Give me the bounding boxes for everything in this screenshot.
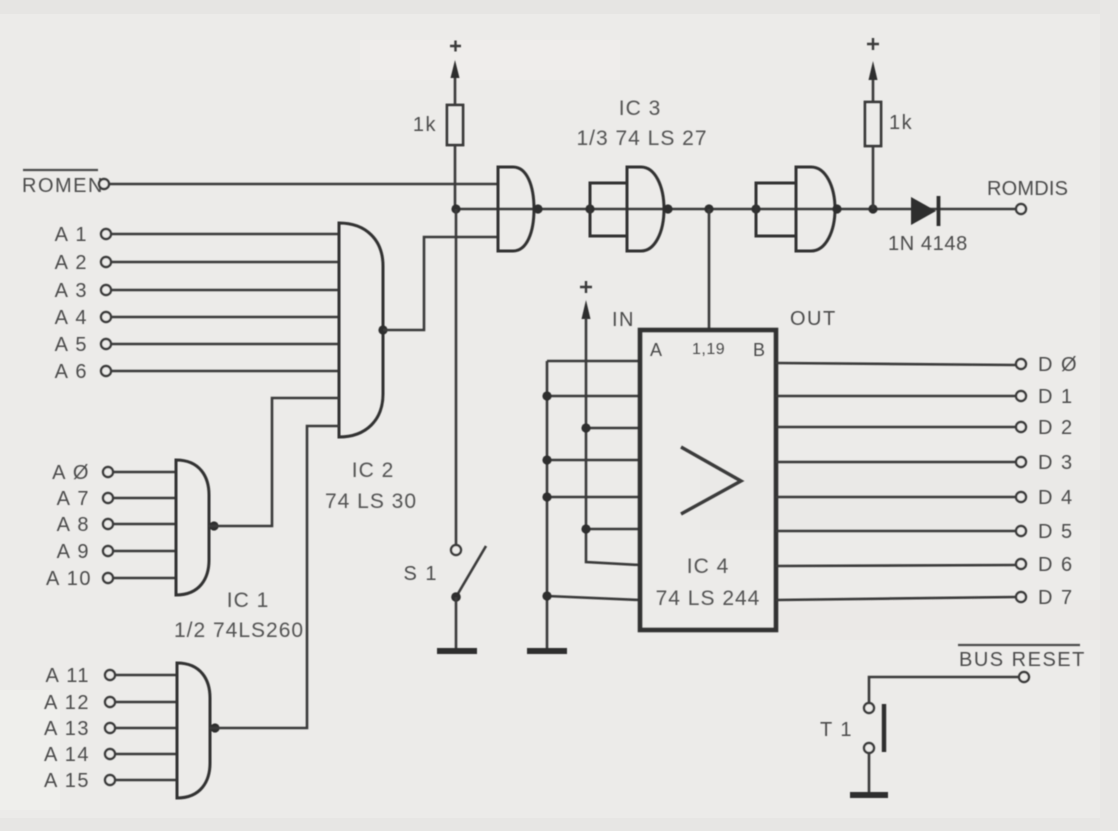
terminal D6	[1016, 554, 1074, 576]
main net wire y209	[456, 208, 1016, 211]
wire IC4 input 2	[547, 395, 640, 398]
wire A15	[116, 779, 177, 782]
wire R2 to main node	[872, 146, 875, 209]
gate IC1b 1/2 74LS260 body	[177, 663, 210, 798]
resistor R1 1k	[413, 105, 463, 145]
junction IN bus in8	[542, 591, 551, 600]
terminal ROMEN	[99, 179, 109, 189]
svg-text:A 15: A 15	[44, 770, 90, 792]
gate IC2 74LS30 body	[339, 223, 383, 437]
node A10	[46, 568, 113, 590]
wire A13	[116, 727, 177, 730]
wire output D6	[776, 565, 1016, 566]
svg-text:A 14: A 14	[44, 744, 90, 766]
wire output D5	[776, 530, 1016, 533]
svg-text:D 4: D 4	[1038, 487, 1074, 509]
wire IC4 input 8	[547, 596, 640, 600]
wire IN bus vertical	[546, 361, 549, 650]
junction IC1a output	[209, 521, 218, 530]
wire IC4 input 5	[547, 496, 640, 499]
junction main at R2	[868, 204, 877, 213]
wire output D0	[776, 363, 1016, 365]
wire A8	[114, 523, 176, 526]
svg-text:A 3: A 3	[55, 280, 88, 302]
svg-text:IC 4: IC 4	[687, 555, 730, 578]
svg-text:ROMEN: ROMEN	[22, 175, 104, 197]
wire IC4 enable pin	[708, 209, 711, 330]
svg-text:A 12: A 12	[44, 692, 90, 714]
pushbutton T1	[820, 703, 884, 753]
svg-text:1N 4148: 1N 4148	[888, 233, 968, 255]
node A12	[44, 692, 115, 714]
svg-text:A 1: A 1	[55, 224, 88, 246]
IC3 label	[576, 97, 707, 150]
wire A4	[112, 316, 339, 319]
svg-text:1k: 1k	[889, 112, 913, 134]
wire A9	[114, 550, 176, 553]
wire output D3	[776, 461, 1016, 464]
power +5V symbol left	[450, 41, 461, 106]
svg-text:1k: 1k	[413, 114, 437, 136]
svg-text:74 LS 244: 74 LS 244	[656, 587, 761, 610]
terminal ROMDIS	[1016, 204, 1026, 214]
junction G2 input	[585, 204, 594, 213]
IC4 buffer symbol	[681, 447, 741, 514]
wire T1 to ground	[868, 753, 871, 794]
svg-text:OUT: OUT	[790, 308, 837, 330]
diode D1 1N4148	[888, 196, 968, 255]
node A6	[55, 361, 111, 383]
svg-text:1/2 74LS260: 1/2 74LS260	[174, 619, 304, 642]
svg-text:A 2: A 2	[55, 252, 88, 274]
terminal D0	[1016, 354, 1078, 376]
wire A10	[114, 577, 176, 580]
svg-text:74 LS 30: 74 LS 30	[325, 490, 417, 513]
terminal D1	[1016, 386, 1074, 408]
svg-text:IC 2: IC 2	[352, 459, 395, 482]
junction G3 output	[832, 204, 841, 213]
node A11	[45, 665, 115, 687]
switch S1	[403, 545, 486, 602]
junction G2 output	[663, 204, 672, 213]
IC4 pin labels A 1,19 B	[650, 340, 766, 360]
wire A1	[112, 233, 339, 236]
ground under T1	[850, 792, 888, 798]
wire IC4 input 1	[547, 360, 640, 363]
IC4 label	[656, 555, 761, 610]
node A4	[55, 307, 111, 329]
wire A7	[114, 497, 176, 500]
node A15	[44, 770, 115, 792]
svg-text:A 13: A 13	[44, 718, 90, 740]
node A8	[57, 514, 113, 536]
svg-text:D 6: D 6	[1038, 554, 1074, 576]
svg-text:A 8: A 8	[57, 514, 90, 536]
svg-text:D Ø: D Ø	[1038, 354, 1078, 376]
svg-text:D 5: D 5	[1038, 521, 1074, 543]
junction IC4 enable pin	[704, 204, 713, 213]
terminal D7	[1016, 587, 1074, 609]
junction main at R1	[451, 204, 460, 213]
switch S1 wire from main node	[455, 209, 458, 545]
terminal D3	[1016, 452, 1074, 474]
ground under IN bus	[527, 648, 567, 654]
terminal D5	[1016, 521, 1074, 543]
wire output D4	[776, 496, 1016, 499]
svg-text:A 5: A 5	[55, 334, 88, 356]
power +5V symbol middle	[580, 281, 592, 319]
wire ROMEN to gate G1	[110, 183, 498, 186]
power +5V symbol right	[867, 38, 879, 102]
ground under S1	[437, 648, 477, 654]
junction IC2 output	[378, 325, 387, 334]
node A5	[55, 334, 111, 356]
resistor R2 1k	[865, 102, 913, 146]
gate G2 IC3 input bracket	[590, 183, 627, 236]
svg-text:BUS RESET: BUS RESET	[959, 649, 1086, 671]
svg-text:ROMDIS: ROMDIS	[987, 178, 1068, 200]
wire IC4 input 4	[547, 459, 640, 462]
junction IN bus in5	[542, 492, 551, 501]
svg-text:D 1: D 1	[1038, 386, 1074, 408]
wire +5V pull-up vertical	[586, 318, 640, 565]
gate G3 IC3 input bracket	[756, 183, 796, 236]
svg-text:D 2: D 2	[1038, 417, 1074, 439]
svg-text:A: A	[650, 340, 663, 360]
gate G3 IC3 body	[796, 167, 835, 251]
IC2 label	[325, 459, 417, 513]
gate G2 IC3 body	[627, 167, 664, 251]
node A2	[55, 252, 111, 274]
wire A3	[112, 289, 339, 292]
svg-text:T 1: T 1	[820, 719, 853, 741]
node A13	[44, 718, 115, 740]
svg-text:B: B	[753, 340, 766, 360]
terminal D2	[1016, 417, 1074, 439]
node A3	[55, 280, 111, 302]
svg-text:D 3: D 3	[1038, 452, 1074, 474]
wire A0	[114, 471, 176, 474]
gate IC1a 1/2 74LS260 body	[176, 460, 209, 595]
node A14	[44, 744, 115, 766]
svg-text:1/3 74 LS 27: 1/3 74 LS 27	[576, 127, 707, 150]
svg-text:A 10: A 10	[46, 568, 92, 590]
junction pull-up in3	[581, 423, 590, 432]
junction G1 output	[533, 204, 542, 213]
junction IN bus in2	[542, 391, 551, 400]
wire output D7	[776, 597, 1016, 600]
wire IC1a output to IC2 input	[209, 398, 339, 526]
IC1 label	[174, 589, 304, 642]
svg-text:A 4: A 4	[55, 307, 88, 329]
wire BUS RESET to T1	[869, 677, 1018, 702]
node BUS RESET label	[958, 645, 1086, 671]
wire A2	[112, 261, 339, 264]
terminal BUS RESET	[1019, 672, 1029, 682]
wire A6	[112, 370, 339, 373]
wire A14	[116, 753, 177, 756]
junction IC1b output	[210, 723, 219, 732]
node A9	[57, 541, 113, 563]
svg-text:IC 3: IC 3	[619, 97, 662, 120]
svg-text:D 7: D 7	[1038, 587, 1074, 609]
wire IC4 input 3	[586, 427, 640, 430]
junction G3 input	[751, 204, 760, 213]
wire A12	[116, 701, 177, 704]
gate G1 IC3 body	[498, 167, 534, 251]
svg-text:A Ø: A Ø	[52, 462, 90, 484]
wire S1 to ground	[455, 597, 458, 650]
wire IC2 output to gate G1 input	[383, 237, 498, 330]
node A1	[55, 224, 111, 246]
svg-text:A 6: A 6	[55, 361, 88, 383]
svg-text:A 11: A 11	[45, 665, 90, 687]
svg-text:IC 1: IC 1	[227, 589, 270, 612]
svg-text:S 1: S 1	[403, 563, 438, 585]
node A7	[57, 488, 113, 510]
buffer IC4 74LS244 box	[640, 330, 776, 630]
wire IC1b output to IC2 input	[210, 426, 339, 728]
wire output D1	[776, 395, 1016, 398]
wire output D2	[776, 426, 1016, 429]
terminal D4	[1016, 487, 1074, 509]
junction IN bus in4	[542, 455, 551, 464]
wire A11	[116, 674, 177, 677]
wire A5	[112, 343, 339, 346]
node A0	[52, 462, 113, 484]
wire R1 to main node	[454, 145, 457, 209]
svg-text:A 7: A 7	[57, 488, 90, 510]
junction pull-up in6	[581, 524, 590, 533]
node ROMEN label	[22, 170, 104, 197]
svg-text:A 9: A 9	[57, 541, 90, 563]
wire IC4 input 6	[586, 528, 640, 531]
svg-text:1,19: 1,19	[692, 341, 725, 358]
svg-text:IN: IN	[612, 309, 635, 331]
